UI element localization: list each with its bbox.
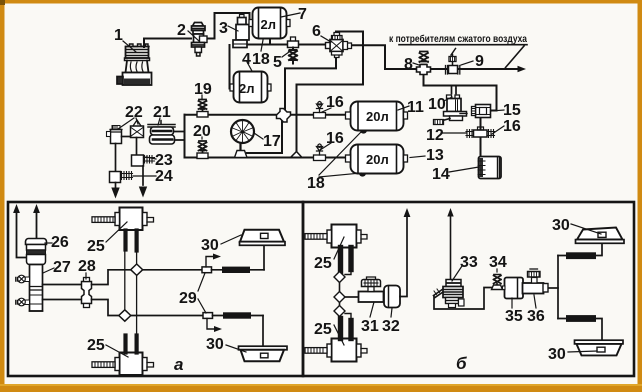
wire tee to valve 31 xyxy=(345,296,359,298)
wire 36 to right manifold xyxy=(549,287,559,289)
wire thin vertical left hose line xyxy=(124,231,126,311)
antifreeze device 3 xyxy=(233,15,249,48)
svg-text:6: 6 xyxy=(312,23,321,40)
valve 22 xyxy=(131,120,144,138)
hose lower xyxy=(213,315,264,317)
svg-text:15: 15 xyxy=(503,102,521,119)
wire 21 to vertical xyxy=(175,132,185,141)
pressure reducer valve 8 xyxy=(417,52,431,75)
wire valve 2 over-the-top to device 3 xyxy=(206,13,250,39)
wire 27 to 28 upper xyxy=(43,284,82,286)
drain valve 16 on tank 13 line xyxy=(314,144,326,161)
svg-text:29: 29 xyxy=(179,290,197,307)
condensate valve 20 xyxy=(197,141,208,159)
protection valve 6 xyxy=(326,33,352,58)
brake valve lower section 27 xyxy=(27,255,46,312)
svg-text:10: 10 xyxy=(428,96,446,113)
wire left device to 22 xyxy=(122,136,131,138)
manifold vertical left xyxy=(339,277,341,312)
exhaust arrow below 24 xyxy=(115,183,117,189)
valve 34 xyxy=(492,275,503,290)
svg-text:20: 20 xyxy=(193,123,211,140)
TOPWIRES xyxy=(144,13,527,158)
diamond fitting top xyxy=(131,264,143,275)
tank volume texts xyxy=(239,17,389,167)
diamond fitting bottom xyxy=(334,306,345,317)
svg-text:21: 21 xyxy=(153,104,171,121)
svg-text:9: 9 xyxy=(475,53,484,70)
wire hose to bottom drum xyxy=(262,316,264,347)
svg-text:35: 35 xyxy=(505,308,523,325)
svg-text:17: 17 xyxy=(263,133,281,150)
wire top manifold to fitting 29a xyxy=(143,269,202,271)
svg-text:24: 24 xyxy=(155,168,173,185)
svg-text:25: 25 xyxy=(87,238,105,255)
svg-text:20л: 20л xyxy=(366,152,389,167)
hand brake valve 21 xyxy=(148,121,175,145)
wheel brake chamber 25 top xyxy=(92,208,154,251)
svg-text:11: 11 xyxy=(407,99,424,116)
BOXB xyxy=(303,202,634,376)
wire tank 7 bottom port xyxy=(269,38,271,44)
svg-text:16: 16 xyxy=(326,130,344,147)
brake drum 30 top xyxy=(240,230,286,246)
svg-text:28: 28 xyxy=(78,258,96,275)
svg-text:18: 18 xyxy=(252,51,270,68)
svg-text:26: 26 xyxy=(51,234,69,251)
wire thin vertical right hose line xyxy=(136,250,138,351)
condensate valve 19 xyxy=(197,100,208,118)
tank 4 (2 l) xyxy=(230,72,271,103)
air canister 32 xyxy=(384,286,400,308)
shutoff device left of 22 xyxy=(107,126,123,144)
wheel brake chamber 25 top left xyxy=(305,225,367,272)
svg-text:36: 36 xyxy=(527,308,545,325)
diamond fitting top xyxy=(334,272,345,283)
wire valve 6 top loop to tank 13 branch xyxy=(297,32,364,153)
svg-text:16: 16 xyxy=(326,94,344,111)
wire compressor to unloader valve 2 xyxy=(144,39,191,48)
diamond fitting bottom xyxy=(119,310,131,321)
flow arrow at 29b xyxy=(207,318,215,329)
svg-text:25: 25 xyxy=(314,321,332,338)
svg-text:14: 14 xyxy=(432,166,450,183)
svg-text:30: 30 xyxy=(552,217,570,234)
svg-text:к потребителям сжатого воздуха: к потребителям сжатого воздуха xyxy=(389,33,527,45)
svg-text:30: 30 xyxy=(548,346,566,363)
exhaust arrow below 23 xyxy=(142,166,144,185)
svg-text:25: 25 xyxy=(87,337,105,354)
wheel brake chamber 25 bottom left xyxy=(305,319,367,362)
svg-text:30: 30 xyxy=(201,237,219,254)
svg-text:7: 7 xyxy=(298,6,307,23)
svg-text:4: 4 xyxy=(242,51,251,68)
wire valve 6 bottom loop to cross fitting xyxy=(285,53,336,111)
box a frame xyxy=(8,202,303,376)
wire vertical at hand-brake valve xyxy=(184,115,186,158)
svg-text:1: 1 xyxy=(114,27,123,44)
unloader valve 2 xyxy=(192,23,208,57)
tank 11 (20 l) xyxy=(346,102,408,134)
wire manifold to top drum with hose xyxy=(558,244,602,256)
svg-text:16: 16 xyxy=(503,118,521,135)
tee fitting middle xyxy=(334,292,345,303)
svg-text:23: 23 xyxy=(155,152,173,169)
wheel brake chamber 25 bottom xyxy=(92,336,154,376)
svg-text:5: 5 xyxy=(273,54,282,71)
wire cross fitting down to gauge xyxy=(247,119,282,153)
valve 23 xyxy=(132,155,155,166)
svg-text:30: 30 xyxy=(206,336,224,353)
wire valve 8 branch down to device 15 xyxy=(424,76,497,111)
brake drum 30 bottom xyxy=(239,346,288,361)
wire 27 to 28 lower xyxy=(43,299,82,301)
valve 9 xyxy=(446,49,460,75)
fitting 29a xyxy=(202,267,212,273)
svg-text:33: 33 xyxy=(460,254,478,271)
wire left device down to 24 xyxy=(115,144,117,173)
svg-text:34: 34 xyxy=(489,254,507,271)
svg-text:12: 12 xyxy=(426,127,444,144)
triangle fitting node xyxy=(291,152,303,158)
svg-text:2: 2 xyxy=(177,22,186,39)
section letters xyxy=(174,354,467,374)
svg-text:13: 13 xyxy=(426,147,444,164)
drain valve 16 on tank 11 line xyxy=(314,102,326,119)
wire 28 lower to bottom manifold xyxy=(92,300,120,316)
svg-text:б: б xyxy=(456,354,467,373)
compressor 1 xyxy=(117,44,152,85)
svg-text:25: 25 xyxy=(314,255,332,272)
svg-text:20л: 20л xyxy=(366,109,389,124)
wire hose to top drum xyxy=(263,244,265,270)
device 15 xyxy=(472,105,491,118)
svg-text:22: 22 xyxy=(125,104,143,121)
bleed screw upper on 27 xyxy=(16,275,30,283)
wire 22 down to 23 xyxy=(136,138,138,156)
tank 7 (2 l) xyxy=(249,8,290,39)
fitting 29b xyxy=(203,313,213,319)
svg-text:2л: 2л xyxy=(261,17,277,32)
cross fitting node xyxy=(277,109,291,123)
wire tank 13 line y157 xyxy=(185,157,350,159)
brake drum 30 bottom right xyxy=(575,340,624,355)
wire device 15 down through fitting 12 to cylinder 14 xyxy=(480,117,482,157)
arrowhead consumers xyxy=(518,66,527,73)
valve 24 xyxy=(110,172,133,183)
hose upper xyxy=(212,269,265,271)
brake valve 10 xyxy=(434,95,468,125)
flow arrow at 29a xyxy=(206,257,214,267)
brake valve upper section 26 xyxy=(26,239,47,255)
wire main line y44 under tank 7 to valve 6 xyxy=(246,44,326,46)
svg-text:8: 8 xyxy=(404,56,413,73)
exhaust arrow right xyxy=(36,212,38,238)
wire tank 11 line y115 xyxy=(185,114,350,116)
fitting 28 xyxy=(82,278,92,308)
air cylinder 14 xyxy=(478,157,501,179)
tee fitting under tank 7 xyxy=(291,37,296,42)
leader lines xyxy=(118,13,504,177)
safety valve 5 xyxy=(289,48,297,64)
BOXA xyxy=(8,202,303,376)
chamber 35 xyxy=(503,278,524,299)
wire bottom manifold to fitting 29b xyxy=(131,315,203,317)
pressure gauge 17 xyxy=(231,120,254,158)
wire 28 upper to top manifold xyxy=(92,270,132,285)
wire consumers text underline with diagonal xyxy=(399,45,527,68)
box b frame xyxy=(303,202,634,376)
tank 13 (20 l) xyxy=(346,145,408,177)
exhaust arrow left (from brake valve 26/27) xyxy=(17,212,28,258)
wire manifold to bottom drum with hose xyxy=(558,319,602,341)
svg-text:19: 19 xyxy=(194,81,212,98)
svg-text:32: 32 xyxy=(382,318,400,335)
wire 32 to up arrow xyxy=(400,217,407,297)
svg-text:31: 31 xyxy=(361,318,379,335)
fitting 12 cross xyxy=(466,127,495,138)
wire brake valve 10 risers xyxy=(452,86,457,94)
right manifold vertical xyxy=(557,256,559,319)
valve 36 xyxy=(523,269,549,294)
wire device 3 down to tank 4 xyxy=(229,45,231,89)
wire valve 6 right to consumers line xyxy=(345,45,520,69)
brake drum 30 top right xyxy=(576,228,625,244)
bleed screw lower on 27 xyxy=(16,298,30,306)
svg-text:3: 3 xyxy=(219,20,228,37)
number labels xyxy=(51,6,570,363)
wire 33 to 34/35 xyxy=(434,288,506,310)
pneumatic valve 31 xyxy=(359,277,384,302)
svg-text:2л: 2л xyxy=(239,81,255,96)
svg-text:27: 27 xyxy=(53,259,71,276)
svg-text:а: а xyxy=(174,355,183,374)
svg-text:18: 18 xyxy=(307,175,325,192)
regulator 33 xyxy=(434,208,465,308)
